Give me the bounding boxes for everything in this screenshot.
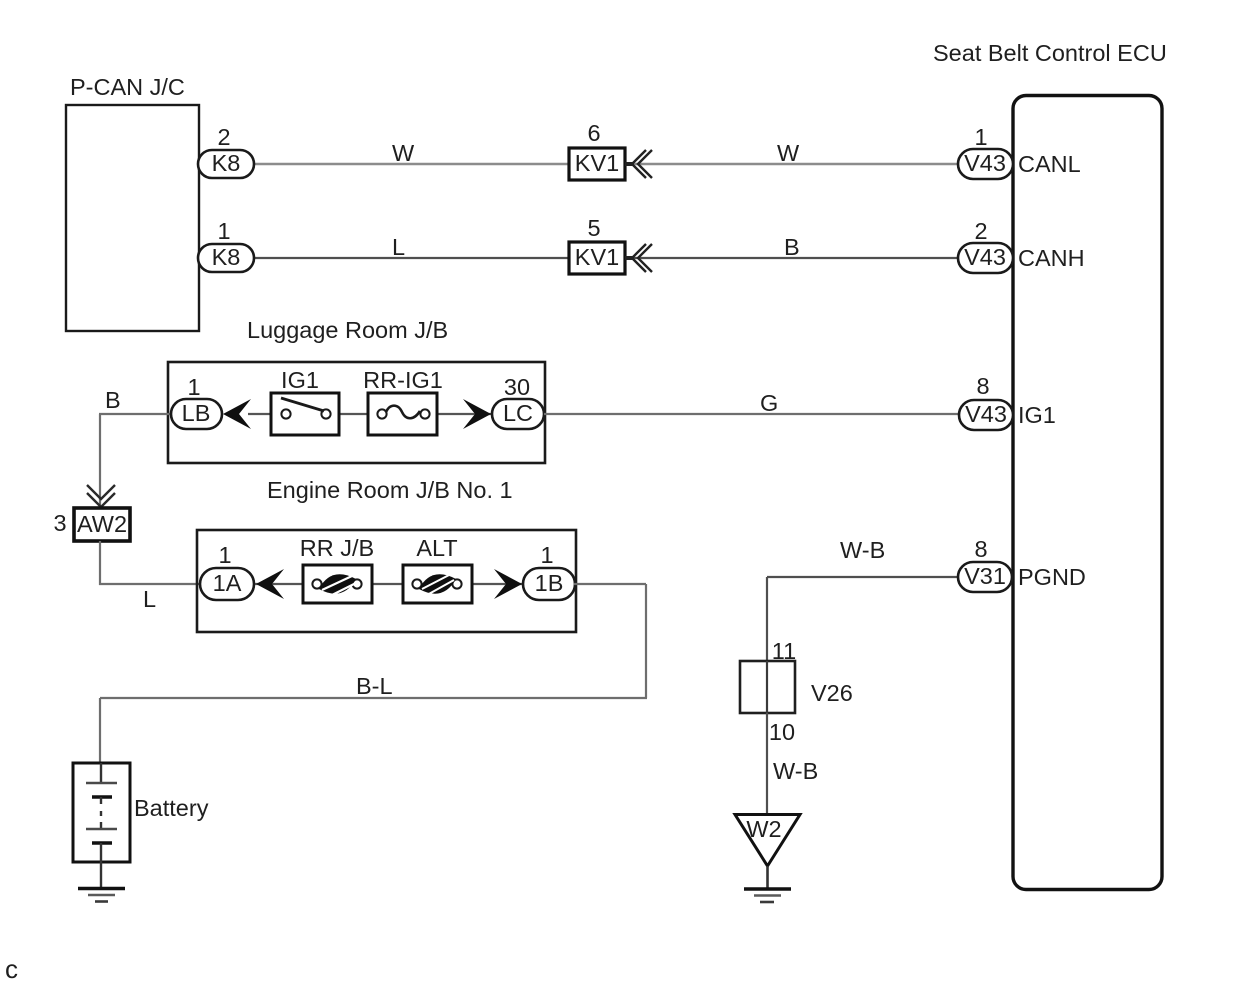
ground (battery) bbox=[78, 887, 125, 890]
junction block: Engine Room J/B No. 1 box bbox=[197, 530, 576, 632]
svg-text:V43: V43 bbox=[964, 150, 1006, 176]
wire B-L: 1B right then down bbox=[574, 583, 646, 585]
svg-text:P-CAN J/C: P-CAN J/C bbox=[70, 74, 185, 100]
connector 1A pin 1 bbox=[200, 568, 254, 600]
connector KV1 pin 6 bbox=[569, 148, 625, 180]
wire: luggage internal segment RR-IG1 to LC bbox=[425, 413, 492, 415]
arrow: male connector mark before 1B bbox=[494, 569, 522, 599]
wire: luggage internal segment LB-arrow-IG1 bbox=[248, 413, 286, 415]
fusible link ALT box bbox=[403, 565, 472, 603]
svg-text:2: 2 bbox=[974, 218, 987, 244]
connector V31 pin 8 bbox=[958, 562, 1012, 592]
svg-text:30: 30 bbox=[504, 374, 530, 400]
wire: battery to ground bbox=[100, 862, 102, 888]
connector K8 pin 2 bbox=[198, 150, 254, 178]
junction connector: P-CAN J/C box bbox=[66, 105, 199, 331]
wire W-B: vertical through V26 bbox=[766, 577, 768, 662]
battery BAT1 box bbox=[73, 763, 130, 862]
svg-text:LB: LB bbox=[182, 400, 211, 426]
svg-text:1A: 1A bbox=[213, 570, 242, 596]
svg-text:Battery: Battery bbox=[134, 795, 209, 821]
wire W: KV1 to V43 (CANL row right segment) bbox=[626, 163, 960, 165]
switch IG1 box bbox=[271, 393, 339, 435]
wire: W2 to ground bbox=[766, 866, 769, 889]
svg-text:KV1: KV1 bbox=[575, 244, 619, 270]
svg-text:3: 3 bbox=[53, 510, 66, 536]
connector V43 pin 8 bbox=[959, 400, 1013, 430]
wire B-L: horizontal run to battery bbox=[100, 697, 647, 699]
svg-text:L: L bbox=[392, 234, 405, 260]
svg-text:V43: V43 bbox=[964, 244, 1006, 270]
svg-text:W: W bbox=[392, 140, 415, 166]
svg-text:LC: LC bbox=[503, 400, 533, 426]
svg-text:1B: 1B bbox=[535, 570, 564, 596]
svg-text:W2: W2 bbox=[746, 816, 781, 842]
svg-text:2: 2 bbox=[217, 124, 230, 150]
svg-text:1: 1 bbox=[974, 124, 987, 150]
svg-text:W-B: W-B bbox=[773, 758, 818, 784]
svg-text:Engine Room J/B No. 1: Engine Room J/B No. 1 bbox=[267, 477, 513, 503]
svg-text:IG1: IG1 bbox=[1018, 402, 1056, 428]
connector V43 pin 2 bbox=[958, 243, 1013, 273]
svg-text:CANL: CANL bbox=[1018, 151, 1081, 177]
svg-text:10: 10 bbox=[769, 719, 795, 745]
svg-text:V26: V26 bbox=[811, 680, 853, 706]
wire inside V26 bbox=[766, 661, 768, 713]
connector KV1 pin 5 bbox=[569, 242, 625, 274]
fusible link ALT element bbox=[412, 579, 421, 588]
svg-text:Seat Belt Control ECU: Seat Belt Control ECU bbox=[933, 40, 1167, 66]
svg-text:K8: K8 bbox=[212, 244, 241, 270]
svg-text:V31: V31 bbox=[964, 563, 1006, 589]
arrow: female connector mark after LB bbox=[223, 399, 251, 429]
wire: luggage internal segment IG1 to RR-IG1 bbox=[330, 413, 382, 415]
wire W-B: V26 to ground W2 bbox=[766, 713, 768, 815]
fuse RR-IG1 box bbox=[368, 393, 437, 435]
wire L: K8 to KV1 (CANH row left segment) bbox=[252, 257, 570, 259]
switch IG1 contacts bbox=[281, 409, 290, 418]
svg-text:B: B bbox=[105, 387, 121, 413]
wire B: vertical drop to AW2 bbox=[99, 414, 101, 508]
wire W-B: V31 to corner bbox=[767, 576, 960, 578]
svg-text:W-B: W-B bbox=[840, 537, 885, 563]
svg-text:8: 8 bbox=[974, 536, 987, 562]
connector 1B pin 1 bbox=[523, 568, 575, 600]
connector LB pin 1 bbox=[171, 399, 222, 429]
svg-text:1: 1 bbox=[187, 374, 200, 400]
svg-text:B: B bbox=[784, 234, 800, 260]
connector K8 pin 1 bbox=[198, 244, 254, 272]
fusible link RR J/B box bbox=[303, 565, 372, 603]
switch IG1 blade bbox=[281, 398, 324, 411]
svg-text:8: 8 bbox=[976, 373, 989, 399]
fusible link RR J/B element bbox=[312, 579, 321, 588]
svg-text:V43: V43 bbox=[965, 401, 1007, 427]
connector V26 box bbox=[740, 661, 795, 713]
svg-text:6: 6 bbox=[587, 120, 600, 146]
ground (W2) bbox=[744, 887, 791, 890]
wire: engine internal segment RR J/B to ALT bbox=[357, 583, 419, 585]
wire W: K8 to KV1 (CANL row left segment) bbox=[252, 163, 570, 165]
svg-text:B-L: B-L bbox=[356, 673, 393, 699]
arrow: male connector mark before LC bbox=[463, 399, 491, 429]
svg-text:1: 1 bbox=[218, 542, 231, 568]
svg-text:1: 1 bbox=[217, 218, 230, 244]
wire G: LC to V43 pin 8 bbox=[544, 413, 960, 415]
wire: engine internal segment 1A-arrow-RR J/B bbox=[252, 583, 317, 585]
svg-text:L: L bbox=[143, 586, 156, 612]
svg-text:c: c bbox=[5, 954, 18, 984]
fuse RR-IG1 element bbox=[377, 409, 386, 418]
svg-text:RR J/B: RR J/B bbox=[300, 535, 374, 561]
svg-text:G: G bbox=[760, 390, 778, 416]
svg-text:CANH: CANH bbox=[1018, 245, 1085, 271]
wire: down to battery bbox=[99, 698, 101, 764]
wire B: KV1 to V43 (CANH row right segment) bbox=[626, 257, 960, 259]
connector AW2 pin 3 bbox=[74, 508, 130, 541]
svg-text:PGND: PGND bbox=[1018, 564, 1086, 590]
wire: engine internal segment ALT to 1B bbox=[457, 583, 526, 585]
svg-text:ALT: ALT bbox=[416, 535, 457, 561]
junction block: Luggage Room J/B box bbox=[168, 362, 545, 463]
svg-text:KV1: KV1 bbox=[575, 150, 619, 176]
svg-text:W: W bbox=[777, 140, 800, 166]
svg-text:AW2: AW2 bbox=[77, 511, 127, 537]
svg-text:5: 5 bbox=[587, 215, 600, 241]
chevron shield marks at KV1 pin 5 bbox=[632, 244, 652, 272]
svg-text:IG1: IG1 bbox=[281, 367, 319, 393]
chevron arrows above AW2 bbox=[87, 485, 115, 507]
svg-text:1: 1 bbox=[540, 542, 553, 568]
ECU U1: Seat Belt Control ECU box bbox=[1013, 96, 1162, 890]
svg-text:Luggage Room J/B: Luggage Room J/B bbox=[247, 317, 448, 343]
svg-text:11: 11 bbox=[772, 638, 796, 664]
wire L: AW2 down to Engine Room J/B bbox=[99, 541, 101, 585]
battery internal plates bbox=[100, 763, 102, 783]
connector V43 pin 1 bbox=[958, 149, 1013, 179]
connector LC pin 30 bbox=[492, 399, 544, 429]
arrow: female connector mark after 1A bbox=[256, 569, 284, 599]
wire B: from node down-left to LB bbox=[99, 413, 172, 415]
svg-text:RR-IG1: RR-IG1 bbox=[363, 367, 443, 393]
chevron shield marks at KV1 pin 6 bbox=[632, 150, 652, 178]
svg-text:K8: K8 bbox=[212, 150, 241, 176]
ground point W2 triangle bbox=[735, 815, 800, 867]
